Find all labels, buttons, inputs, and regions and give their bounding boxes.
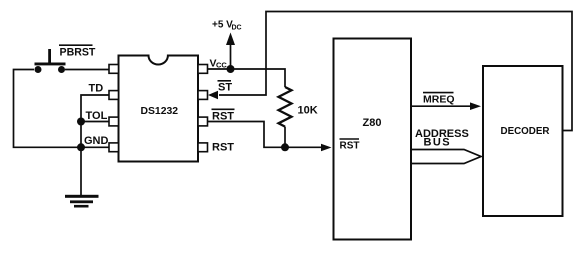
junction TOL node <box>77 118 85 126</box>
label VCC pin <box>210 58 228 70</box>
wire TOL <box>81 121 110 123</box>
svg-text:+5 V: +5 V <box>212 20 233 31</box>
svg-text:Z80: Z80 <box>363 117 382 129</box>
svg-text:DECODER: DECODER <box>501 126 550 137</box>
label ADDRESS BUS <box>415 128 469 149</box>
arrowhead into Z80 RST <box>321 144 332 152</box>
wire TD to node rail <box>81 95 110 196</box>
wire ST feedback from decoder <box>219 12 572 131</box>
label RST-bar pin <box>212 109 235 122</box>
junction GND node <box>77 143 85 151</box>
wire MREQ arrow <box>411 102 481 110</box>
label PBRST <box>59 45 96 58</box>
junction resistor bottom node <box>281 143 289 151</box>
label ST pin <box>218 81 233 94</box>
label +5 VDC <box>212 20 242 32</box>
arrowhead into ST pin <box>208 91 218 99</box>
svg-text:DS1232: DS1232 <box>141 106 179 117</box>
svg-text:TOL: TOL <box>86 110 108 122</box>
junction VCC node <box>227 65 235 73</box>
svg-text:ST: ST <box>218 82 232 94</box>
pushbutton PBRST <box>35 49 66 73</box>
svg-text:BUS: BUS <box>424 137 451 149</box>
power +5V arrow <box>226 33 235 70</box>
wire left rail from pushbutton to GND line <box>14 70 110 148</box>
svg-text:RST: RST <box>212 141 234 153</box>
label MREQ <box>423 93 455 106</box>
svg-text:10K: 10K <box>298 105 318 117</box>
svg-text:PBRST: PBRST <box>60 46 96 58</box>
CPU Z80 <box>334 39 412 240</box>
wire RST-bar to Z80 <box>208 122 323 148</box>
svg-text:TD: TD <box>89 82 104 94</box>
svg-text:DC: DC <box>232 25 242 32</box>
block DECODER <box>483 66 563 216</box>
svg-text:GND: GND <box>84 135 109 147</box>
ground <box>65 195 99 208</box>
bus address bus arrow <box>411 150 481 164</box>
resistor 10K <box>279 87 292 147</box>
wire VCC to resistor top <box>208 69 286 87</box>
svg-text:MREQ: MREQ <box>423 94 455 106</box>
wire pushbutton to DS1232 pin 1 <box>65 69 110 71</box>
IC DS1232 <box>109 56 208 162</box>
svg-text:RST: RST <box>340 140 360 151</box>
